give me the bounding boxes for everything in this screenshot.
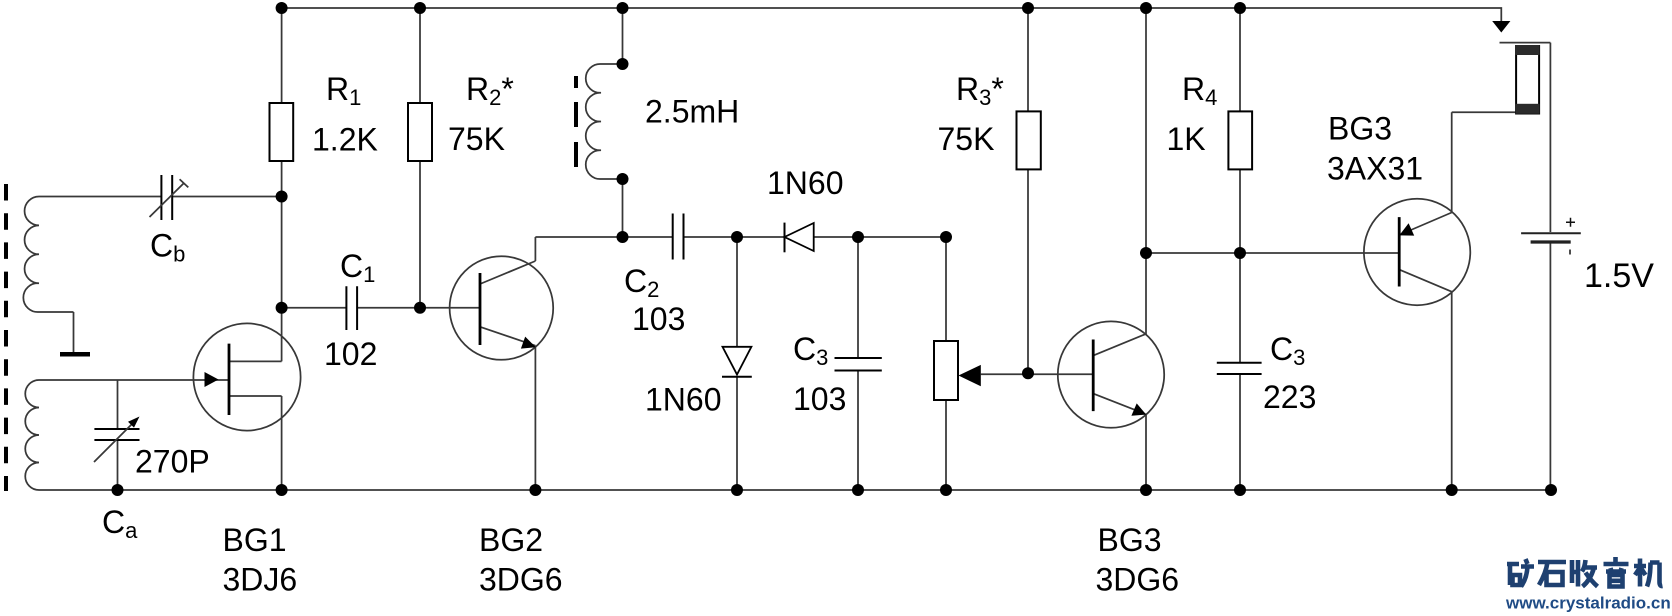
svg-text:1K: 1K [1167,121,1206,157]
svg-text:103: 103 [632,301,685,337]
svg-text:2.5mH: 2.5mH [645,94,739,130]
svg-text:270P: 270P [135,444,210,480]
svg-text:1N60: 1N60 [645,382,722,418]
svg-text:3AX31: 3AX31 [1327,151,1423,187]
svg-text:BG3: BG3 [1328,111,1392,147]
svg-text:1.2K: 1.2K [312,122,378,158]
svg-text:102: 102 [324,336,377,372]
svg-text:75K: 75K [938,121,995,157]
svg-text:3DG6: 3DG6 [1096,562,1180,598]
svg-text:75K: 75K [448,121,505,157]
svg-text:1.5V: 1.5V [1584,257,1654,295]
svg-text:www.crystalradio.cn: www.crystalradio.cn [1505,594,1671,613]
svg-text:1N60: 1N60 [767,165,844,201]
svg-text:223: 223 [1263,379,1316,415]
svg-text:103: 103 [793,381,846,417]
svg-text:3DG6: 3DG6 [479,562,563,598]
svg-text:BG3: BG3 [1098,522,1162,558]
svg-text:BG2: BG2 [479,522,543,558]
svg-text:3DJ6: 3DJ6 [223,562,298,598]
svg-text:BG1: BG1 [223,522,287,558]
